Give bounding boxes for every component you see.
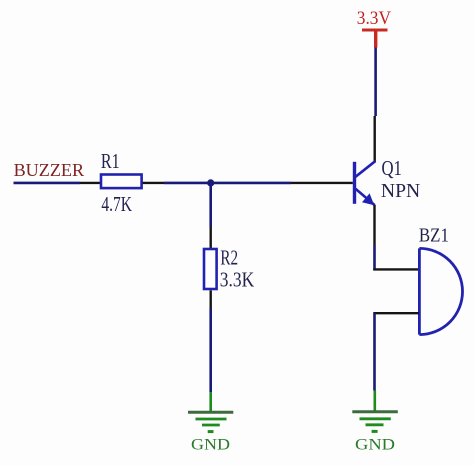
resistor R2 body [204,249,217,289]
transistor Q1 collector diagonal [356,161,376,177]
ground symbol right bar4 [372,430,378,433]
wire R1 to junction [164,182,211,185]
transistor Q1 emitter diagonal [356,189,375,205]
svg-text:3.3K: 3.3K [220,267,255,291]
power symbol 3.3V stem [374,29,377,48]
pin R2 bottom [209,290,211,308]
wire from BUZZER label [14,182,81,185]
ground symbol left bar3 [202,424,220,427]
svg-text:3.3V: 3.3V [357,8,391,29]
svg-text:R1: R1 [101,149,120,173]
ground symbol left bar2 [196,418,227,421]
svg-text:4.7K: 4.7K [101,192,132,216]
ground symbol left stem [209,392,212,412]
wire R2 to ground [209,308,212,392]
ground symbol right bar2 [360,417,391,420]
svg-text:NPN: NPN [381,180,420,202]
power symbol 3.3V bar [362,29,388,32]
svg-text:GND: GND [191,437,230,454]
ground symbol left bar4 [208,430,214,433]
pin R1 left [80,182,101,184]
svg-text:Q1: Q1 [382,156,402,180]
pin R1 right [143,182,165,184]
ground symbol left bar1 [188,411,233,414]
wire emitter down [373,245,376,271]
junction node [207,179,214,186]
svg-text:R2: R2 [220,245,238,269]
resistor R1 body [101,175,142,189]
buzzer BZ1 body dome [419,248,462,334]
wire collector from 3.3V [374,48,377,117]
wire junction to R2 [209,183,212,227]
ground symbol right bar3 [366,423,384,426]
pin BZ1 bottom [373,312,419,314]
pin R2 top [209,227,211,248]
pin Q1 collector [374,116,376,163]
wire junction to base [211,182,291,185]
svg-text:BZ1: BZ1 [419,225,449,247]
wire BZ1 to ground [373,313,376,390]
buzzer BZ1 body flat side [418,248,421,334]
pin BZ1 top [373,268,419,270]
pin Q1 base [291,182,353,184]
transistor Q1 emitter arrow [362,193,374,205]
pin Q1 emitter [373,205,375,245]
transistor Q1 base bar [353,162,356,204]
ground symbol right stem [373,391,376,412]
svg-text:GND: GND [355,437,395,454]
svg-text:BUZZER: BUZZER [14,160,85,180]
ground symbol right bar1 [352,410,398,413]
